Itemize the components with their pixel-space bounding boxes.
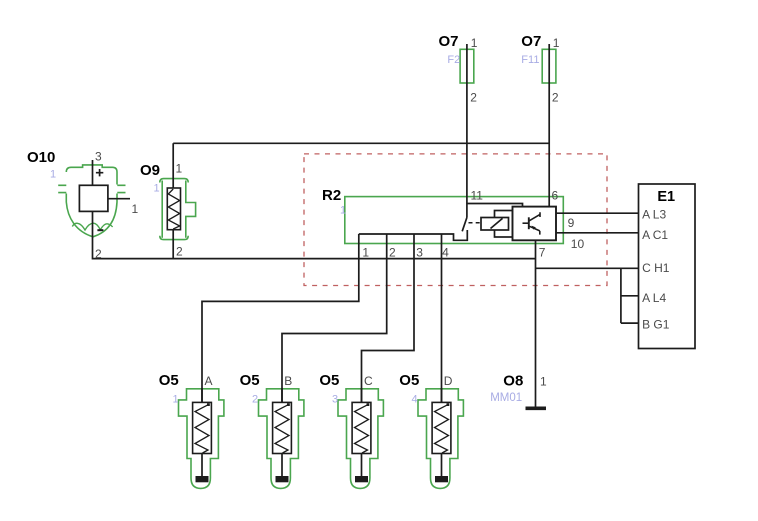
svg-text:D: D bbox=[444, 374, 453, 388]
svg-text:1: 1 bbox=[132, 202, 139, 216]
svg-text:2: 2 bbox=[470, 91, 477, 105]
svg-text:A: A bbox=[205, 374, 213, 388]
svg-text:O5: O5 bbox=[159, 372, 179, 389]
svg-text:1: 1 bbox=[471, 36, 478, 50]
svg-text:3: 3 bbox=[95, 150, 102, 164]
svg-text:F2: F2 bbox=[447, 54, 460, 66]
svg-text:A L4: A L4 bbox=[642, 291, 666, 305]
svg-text:O5: O5 bbox=[399, 372, 419, 389]
svg-text:O10: O10 bbox=[27, 149, 55, 166]
svg-text:A C1: A C1 bbox=[642, 228, 668, 242]
svg-text:9: 9 bbox=[568, 216, 575, 230]
svg-text:O9: O9 bbox=[140, 162, 160, 179]
svg-text:MM01: MM01 bbox=[490, 392, 522, 404]
svg-text:O5: O5 bbox=[319, 372, 339, 389]
svg-text:4: 4 bbox=[412, 394, 418, 406]
svg-text:6: 6 bbox=[552, 189, 559, 203]
svg-text:C H1: C H1 bbox=[642, 261, 670, 275]
svg-text:2: 2 bbox=[176, 245, 183, 259]
svg-text:1: 1 bbox=[340, 204, 346, 216]
svg-text:A L3: A L3 bbox=[642, 207, 666, 221]
svg-text:O8: O8 bbox=[503, 373, 523, 390]
svg-text:F11: F11 bbox=[521, 54, 539, 66]
svg-text:3: 3 bbox=[332, 394, 338, 406]
svg-text:2: 2 bbox=[95, 247, 102, 261]
svg-text:O7: O7 bbox=[439, 33, 459, 50]
svg-text:E1: E1 bbox=[657, 189, 675, 205]
svg-text:R2: R2 bbox=[322, 187, 341, 204]
svg-text:1: 1 bbox=[362, 246, 369, 260]
svg-text:7: 7 bbox=[539, 246, 546, 260]
svg-text:1: 1 bbox=[176, 161, 183, 175]
svg-text:11: 11 bbox=[471, 189, 484, 203]
svg-text:O5: O5 bbox=[240, 372, 260, 389]
svg-text:1: 1 bbox=[173, 394, 179, 406]
svg-text:3: 3 bbox=[416, 246, 423, 260]
svg-text:10: 10 bbox=[571, 237, 585, 251]
svg-text:1: 1 bbox=[50, 169, 56, 181]
svg-text:1: 1 bbox=[154, 182, 160, 194]
svg-text:B G1: B G1 bbox=[642, 317, 670, 331]
svg-text:2: 2 bbox=[552, 91, 559, 105]
svg-text:O7: O7 bbox=[521, 33, 541, 50]
svg-text:1: 1 bbox=[553, 36, 560, 50]
svg-text:4: 4 bbox=[442, 246, 449, 260]
svg-text:2: 2 bbox=[252, 394, 258, 406]
svg-text:B: B bbox=[284, 374, 292, 388]
svg-text:C: C bbox=[364, 374, 373, 388]
svg-text:1: 1 bbox=[540, 375, 547, 389]
svg-text:2: 2 bbox=[389, 246, 396, 260]
